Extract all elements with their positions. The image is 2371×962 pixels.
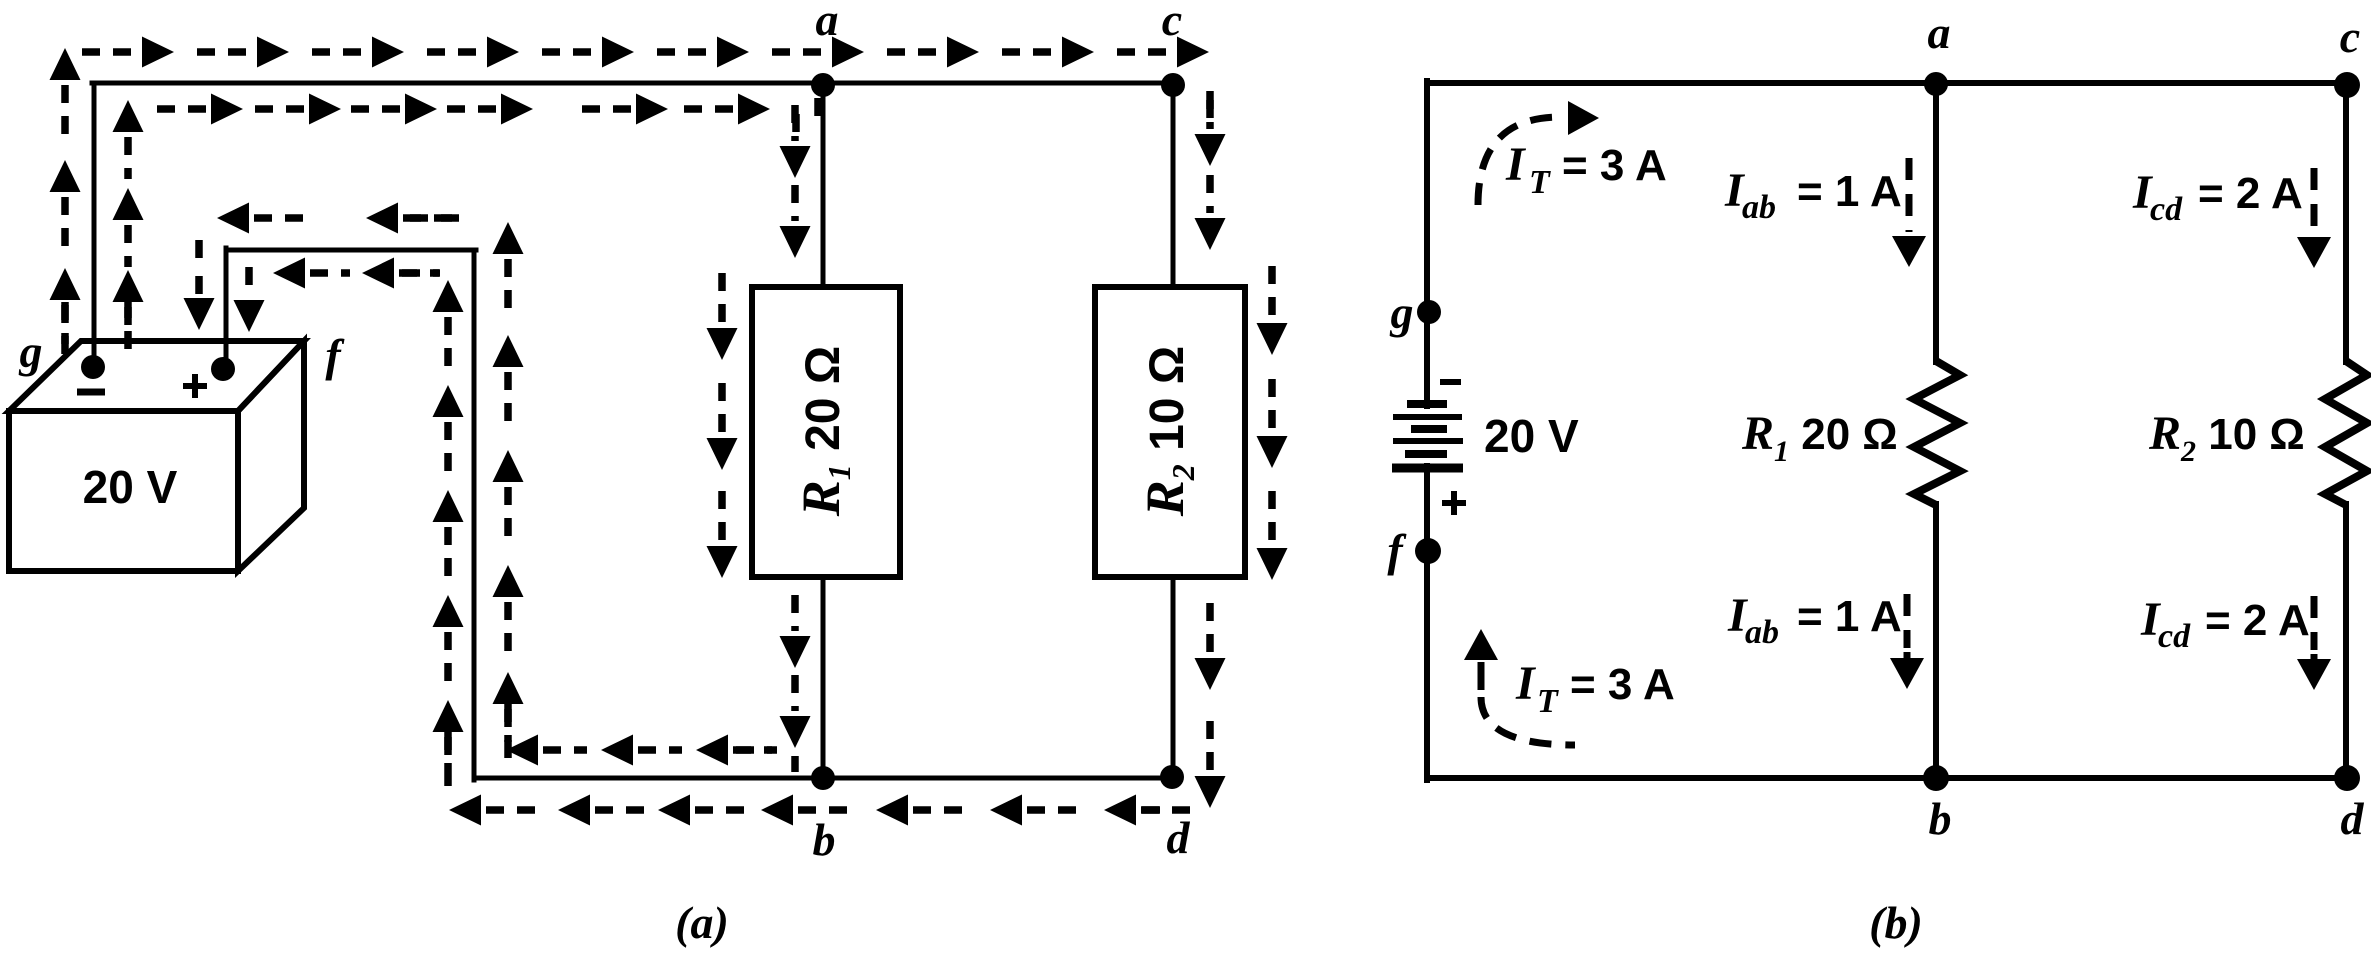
current arrows node c to R2 (downward) [1195,91,1226,250]
battery minus sign (schematic) [1440,379,1461,385]
current label Icd = 2 A (bottom) [2140,593,2310,655]
current arrows below top bus (rightward) [157,94,796,143]
svg-text:g: g [1390,287,1414,338]
node label f [325,330,345,381]
wire R1 bottom to node b [821,577,826,778]
wire R1 down to node b (schematic) [1933,504,1939,778]
battery B1 plate (long) 3 [1392,464,1463,473]
current arrows above inner run (leftward) [217,203,464,234]
node b dot (schematic) [1923,765,1949,791]
svg-text:= 3 A: = 3 A [1562,141,1667,190]
current label IT = 3 A (top) [1505,138,1667,201]
node a dot (schematic) [1924,72,1948,96]
wire R2 bottom to node d [1171,577,1176,778]
node a junction dot [811,73,835,97]
current label IT = 3 A (bottom) [1515,657,1675,720]
svg-text:cd: cd [2158,618,2191,655]
wire bottom-left riser [472,250,477,780]
wire g to top-left corner [92,83,97,367]
svg-text:= 1 A: = 1 A [1797,592,1902,641]
svg-text:d: d [2341,793,2365,844]
svg-text:= 3 A: = 3 A [1570,660,1675,709]
svg-text:= 1 A: = 1 A [1797,167,1902,216]
svg-text:I: I [1505,138,1527,191]
wire R2 down to node d (schematic) [2343,504,2349,778]
node d label (schematic) [2341,793,2365,844]
current arrows left of bottom riser (upward) [433,280,464,787]
current arrows above top bus (rightward) [82,37,1209,68]
node c label (schematic) [2340,11,2360,62]
battery B1 plate (long) 2 [1393,438,1463,444]
current Iab arrow (top) [1892,158,1926,267]
svg-text:g: g [19,326,43,377]
svg-text:(a): (a) [675,897,729,948]
resistor R1 body [752,287,900,577]
battery value 20 V (schematic) [1484,410,1579,462]
current label Iab = 1 A (top) [1724,164,1902,226]
wire battery to f to bottom bus [1424,466,1430,780]
svg-text:R2 10 Ω: R2 10 Ω [1135,346,1201,518]
node d junction dot [1160,765,1184,789]
caption (a) [675,897,729,948]
node b junction dot [811,766,835,790]
current arrows right of g wire (upward) [113,100,144,349]
battery B1 plate (short) [1407,400,1447,408]
svg-text:R1 20 Ω: R1 20 Ω [1741,407,1898,468]
node label g [19,326,43,377]
svg-text:T: T [1529,164,1551,201]
current IT arrow (bottom) [1464,629,1575,745]
wire node c down to R2 (schematic) [2343,81,2349,362]
svg-text:(b): (b) [1869,897,1923,948]
resistor R2 label R2 10 ohm [2148,407,2305,468]
current arrows right of R2 (downward) [1257,266,1288,580]
current arrows below bottom bus (leftward) [449,795,1193,826]
battery B1 right face [238,341,304,571]
svg-text:ab: ab [1742,189,1776,226]
terminal f (positive) [211,357,235,381]
current arrows below inner run (leftward) [273,258,440,289]
wire bottom bus f-b-d (schematic) [1427,775,2346,781]
resistor R2 zigzag [2325,361,2367,505]
battery B1 plate (short) 3 [1405,450,1447,458]
node c junction dot [1161,73,1185,97]
caption (b) [1869,897,1923,948]
current Iab arrow (bottom) [1890,594,1924,689]
wire bottom bus b-d [474,776,1174,781]
node f dot (schematic) [1415,538,1441,564]
svg-text:20 V: 20 V [83,461,178,513]
node g dot (schematic) [1417,300,1441,324]
current label Icd = 2 A (top) [2132,166,2303,228]
terminal g (negative) [81,355,105,379]
node g label (schematic) [1390,287,1414,338]
svg-text:f: f [1387,525,1407,576]
current Icd arrow (bottom) [2297,596,2331,690]
node b label [813,814,836,865]
resistor R2 body [1095,287,1245,577]
current arrows R1 to node b (downward) [780,595,811,772]
svg-text:= 2 A: = 2 A [2205,596,2310,645]
battery B1 top face [9,341,304,411]
svg-text:R2 10 Ω: R2 10 Ω [2148,407,2305,468]
resistor R1 zigzag [1914,361,1960,505]
svg-text:cd: cd [2150,191,2183,228]
svg-text:20 V: 20 V [1484,410,1579,462]
current arrows down to terminal f (col 2) [234,267,265,332]
battery B1 value label 20 V [83,461,178,513]
wire node a to R1 top [821,84,826,287]
wire f terminal riser [224,248,229,368]
current arrows left of R1 (downward) [707,273,738,578]
current arrows right of bottom riser (upward) [493,222,524,761]
battery plus sign (schematic) [1442,491,1466,515]
resistor R2 value label R2 10 ohm [1135,346,1201,518]
battery B1 front face [9,411,238,571]
resistor R1 value label R1 20 ohm [791,346,857,518]
wire node a down to R1 (schematic) [1933,81,1939,362]
wire node c to R2 top [1171,84,1176,287]
node b label (schematic) [1929,793,1952,844]
wire g branch from top bus [1424,81,1430,406]
svg-text:c: c [2340,11,2360,62]
node c label [1162,0,1182,45]
node a label [816,0,839,45]
svg-text:T: T [1537,683,1559,720]
svg-text:f: f [325,330,345,381]
plus sign [183,374,207,398]
svg-text:b: b [813,814,836,865]
node a label (schematic) [1928,7,1951,58]
svg-text:a: a [1928,7,1951,58]
wire inner top run to f [226,248,476,253]
svg-text:ab: ab [1745,614,1779,651]
svg-text:I: I [1515,657,1537,710]
node f label (schematic) [1387,525,1407,576]
current arrows down to terminal f (col 1) [184,240,215,330]
svg-text:R1 20 Ω: R1 20 Ω [791,346,857,518]
current label Iab = 1 A (bottom) [1727,589,1902,651]
current arrows above bottom bus (leftward) [506,735,777,766]
current arrows node a to R1 (downward) [780,98,819,258]
resistor R1 label R1 20 ohm [1741,407,1898,468]
battery B1 plate (long) [1393,414,1462,420]
svg-text:d: d [1167,812,1191,863]
current Icd arrow (top) [2297,168,2331,268]
wire top bus g-a-c (schematic) [1427,80,2346,86]
svg-text:= 2 A: = 2 A [2198,169,2303,218]
node d dot (schematic) [2334,765,2360,791]
svg-text:b: b [1929,793,1952,844]
wire top bus g-a-c [92,81,1174,86]
current arrows R2 to node d (downward) [1195,603,1226,808]
node c dot (schematic) [2334,72,2360,98]
current IT arc arrow (top) [1478,101,1599,205]
node d label [1167,812,1191,863]
current arrows left of g wire (upward) [50,48,81,357]
battery B1 plate (short) 2 [1411,425,1447,433]
minus sign [77,389,105,396]
